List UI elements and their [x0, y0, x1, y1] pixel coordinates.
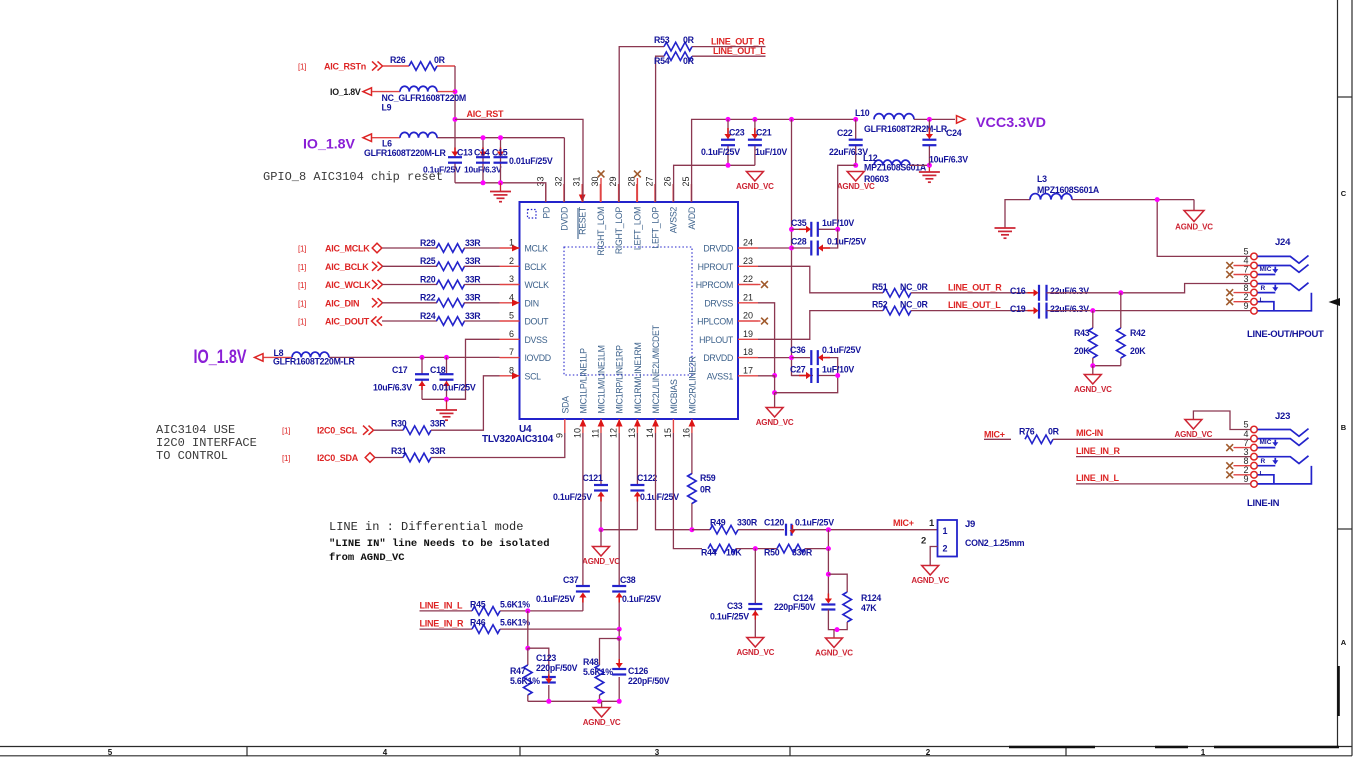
svg-text:5.6K1%: 5.6K1%: [500, 618, 530, 628]
svg-text:J23: J23: [1275, 411, 1290, 422]
junction C21 top: [752, 117, 757, 122]
svg-text:C36: C36: [790, 345, 806, 355]
svg-text:16: 16: [681, 428, 691, 438]
svg-text:AIC_DIN: AIC_DIN: [325, 298, 359, 308]
svg-text:L9: L9: [382, 103, 392, 113]
svg-text:C35: C35: [791, 218, 807, 228]
svg-text:10: 10: [572, 428, 582, 438]
wire RIGHT_LOP pin 29 to R53: [619, 47, 664, 202]
svg-text:R46: R46: [470, 618, 486, 628]
svg-text:NC_GLFR1608T220M: NC_GLFR1608T220M: [382, 93, 467, 103]
wire I2C0_SCL to R30: [374, 429, 403, 431]
wire C120 to J9 pin 1 MIC+: [791, 529, 938, 531]
wire C123 branch: [528, 648, 549, 676]
svg-text:9: 9: [554, 433, 564, 438]
junction C35 left: [789, 227, 794, 232]
svg-text:L10: L10: [855, 108, 870, 118]
svg-text:GLFR1608T220M-LR: GLFR1608T220M-LR: [273, 357, 355, 367]
C28 polarity arrow: [818, 244, 830, 251]
svg-text:PD: PD: [541, 207, 551, 219]
svg-text:0R: 0R: [434, 55, 446, 65]
resistor R46: [472, 625, 500, 634]
junction C17 top: [420, 355, 425, 360]
svg-text:[1]: [1]: [298, 245, 306, 254]
sheet mid-edge arrow marker: [1329, 298, 1341, 306]
svg-text:8: 8: [509, 365, 514, 375]
C36 polarity arrow: [818, 354, 830, 361]
svg-text:R22: R22: [420, 293, 436, 303]
junction LINE_IN_L branch: [525, 608, 530, 613]
wire ground rail to C36 C27 right: [775, 376, 838, 393]
svg-text:DOUT: DOUT: [525, 317, 550, 327]
C120 polarity arrow: [790, 525, 796, 534]
C33 polarity arrow: [752, 611, 759, 620]
svg-text:AVSS2: AVSS2: [669, 207, 679, 234]
svg-text:33R: 33R: [430, 446, 446, 456]
port AIC_DIN: [372, 298, 383, 307]
svg-text:R124: R124: [861, 593, 881, 603]
svg-text:AVDD: AVDD: [687, 207, 697, 230]
capacitor C33: [748, 604, 762, 609]
J24 pin numbers 5 4 7 3 8 2 9: [1243, 247, 1248, 311]
svg-text:C122: C122: [637, 473, 657, 483]
svg-text:24: 24: [743, 238, 753, 248]
svg-text:MIC-IN: MIC-IN: [1076, 428, 1103, 438]
junction R48 C126 split: [617, 636, 622, 641]
svg-text:L6: L6: [382, 139, 392, 149]
svg-text:AIC_RST: AIC_RST: [467, 109, 505, 119]
resistor R25: [437, 262, 465, 271]
svg-text:29: 29: [608, 176, 618, 186]
junction C15 top: [498, 135, 503, 140]
wire DRVSS pin 21 down to AVSS node: [758, 303, 775, 376]
C38 polarity arrow: [616, 593, 623, 603]
svg-text:R42: R42: [1130, 328, 1146, 338]
port IO_1.8V triangle left: [255, 354, 264, 362]
svg-text:1uF/10V: 1uF/10V: [755, 147, 787, 157]
U4 left pin names MCLK BCLK WCLK DIN DOUT DVSS IOVDD SCL: [525, 244, 551, 382]
wire C15 branch: [500, 138, 502, 183]
svg-text:33R: 33R: [465, 311, 481, 321]
svg-text:0.1uF/25V: 0.1uF/25V: [827, 237, 866, 247]
svg-text:MIC: MIC: [1260, 266, 1272, 273]
svg-text:5: 5: [509, 311, 514, 321]
sheet zone numbers 5 4 3 2 1: [108, 748, 1206, 757]
svg-text:[1]: [1]: [282, 454, 290, 463]
wire R30 to SCL pin 8: [431, 376, 500, 430]
inductor L8: [292, 352, 329, 357]
svg-text:LINE_OUT_R: LINE_OUT_R: [948, 283, 1002, 293]
wire IO_1.8V to L9: [372, 91, 400, 93]
capacitor C124: [821, 605, 835, 610]
svg-text:MIC+: MIC+: [893, 518, 914, 528]
junction C22 bottom L12 left: [853, 163, 858, 168]
wire bottom AGND rail: [528, 700, 619, 702]
wire AVSS node down to ground rail: [774, 376, 776, 393]
svg-text:R: R: [1261, 285, 1266, 292]
wire C14 branch: [482, 138, 484, 183]
svg-text:AGND_VC: AGND_VC: [736, 182, 774, 191]
wire MIC+ to R76: [984, 438, 1011, 440]
sheet frame zone ticks bottom: [247, 747, 1066, 756]
J23 no-connect stubs with X pins 7 8 2: [1234, 447, 1251, 449]
svg-text:23: 23: [743, 256, 753, 266]
svg-text:C13: C13: [457, 148, 473, 158]
resistor R22: [437, 299, 465, 308]
capacitor C28: [811, 241, 818, 256]
wire J23 pin 5 to AGND_VC: [1193, 411, 1250, 430]
wire MIC1LP pin 10 down through C37: [582, 433, 584, 585]
U4 bottom pin names SDA MIC1LP MIC1LM MIC1RP MIC1RM MIC2L MICBIAS MIC2R: [560, 324, 697, 413]
wire C13 branch vertical: [454, 152, 456, 158]
svg-text:MIC+: MIC+: [984, 430, 1005, 440]
U4 bottom pin input arrows pins 10-14 16: [580, 419, 587, 427]
U4 top pin stubs 33-25: [546, 184, 692, 202]
wire L12 to C24 bottom: [910, 164, 929, 166]
resistor R53: [664, 42, 692, 51]
svg-text:0.1uF/25V: 0.1uF/25V: [710, 612, 749, 622]
wire C124 R124 bottoms: [828, 610, 847, 630]
svg-text:AGND_VC: AGND_VC: [736, 648, 774, 657]
wire C27 row: [792, 375, 811, 377]
C16 polarity arrow: [1028, 289, 1039, 296]
U4 pin 31 RESET input arrow: [579, 195, 586, 203]
svg-text:MIC1RP/LINE1RP: MIC1RP/LINE1RP: [615, 345, 625, 414]
J9 internal pin labels 1 2: [943, 526, 948, 554]
svg-text:C19: C19: [1010, 304, 1026, 314]
svg-text:1: 1: [1201, 748, 1206, 757]
svg-text:LINE-IN: LINE-IN: [1247, 498, 1280, 509]
wire AVDD pin 25 to 3.3V rail: [692, 119, 856, 202]
svg-text:AGND_VC: AGND_VC: [583, 718, 621, 727]
svg-text:25: 25: [681, 176, 691, 186]
junction R43 bottom: [1090, 363, 1095, 368]
svg-text:AIC3104 USE: AIC3104 USE: [156, 423, 235, 437]
svg-text:R43: R43: [1074, 328, 1090, 338]
wire J9 pin 2 to AGND: [930, 547, 937, 566]
wire left decoupling rail vertical: [791, 119, 793, 229]
svg-text:1uF/10V: 1uF/10V: [822, 218, 854, 228]
svg-text:R: R: [1261, 458, 1266, 465]
J24 jack tiny labels MIC R L: [1260, 266, 1272, 304]
svg-text:C24: C24: [946, 128, 962, 138]
svg-text:HPRCOM: HPRCOM: [696, 280, 733, 290]
capacitor C19: [1039, 303, 1047, 319]
svg-text:R29: R29: [420, 238, 436, 248]
svg-text:1: 1: [509, 238, 514, 248]
junction C24 top: [927, 117, 932, 122]
capacitor C14: [476, 157, 490, 163]
svg-text:21: 21: [743, 292, 753, 302]
C14 polarity arrow: [479, 148, 486, 157]
svg-text:B: B: [1341, 423, 1347, 432]
svg-text:TO CONTROL: TO CONTROL: [156, 449, 228, 463]
svg-text:C120: C120: [764, 518, 784, 528]
svg-text:C126: C126: [628, 666, 648, 676]
svg-text:C23: C23: [729, 128, 745, 138]
svg-text:AGND_VC: AGND_VC: [1175, 430, 1213, 439]
svg-text:C28: C28: [791, 237, 807, 247]
wire L3 to J24 pin 5: [1072, 199, 1194, 201]
junction C23 bottom: [726, 163, 731, 168]
svg-text:3: 3: [509, 274, 514, 284]
resistor R42: [1120, 293, 1122, 328]
svg-text:AIC_MCLK: AIC_MCLK: [325, 244, 370, 254]
U4 top pin numbers 33-25: [535, 176, 691, 186]
resistor R26: [409, 62, 437, 71]
wire L3 left to ground: [1005, 200, 1030, 228]
resistor R31: [403, 453, 431, 462]
port I2C0_SCL chevron: [363, 426, 374, 435]
svg-text:HPLCOM: HPLCOM: [697, 317, 733, 327]
capacitor C17: [415, 374, 429, 380]
wire AIC_DIN to resistor: [382, 302, 437, 304]
svg-text:AGND_VC: AGND_VC: [1074, 385, 1112, 394]
U4 left pin stubs 1-8: [500, 248, 520, 376]
resistor R124: [843, 592, 852, 622]
inductor L12: [874, 160, 910, 165]
svg-text:MICBIAS: MICBIAS: [669, 379, 679, 414]
svg-text:MIC: MIC: [1260, 439, 1272, 446]
svg-text:C121: C121: [583, 473, 603, 483]
svg-text:L: L: [1260, 297, 1264, 304]
wire C22 branch: [855, 119, 857, 139]
wire MIC2L pin 14 down to R49 node: [656, 433, 692, 530]
C124 polarity arrow: [825, 594, 832, 604]
svg-text:10uF/6.3V: 10uF/6.3V: [929, 155, 968, 165]
svg-text:R20: R20: [420, 274, 436, 284]
wire R49 row: [692, 529, 710, 531]
svg-text:SCL: SCL: [525, 371, 542, 381]
port IO_1.8V small triangle: [363, 88, 372, 96]
junction C14 top: [481, 135, 486, 140]
svg-text:AIC_DOUT: AIC_DOUT: [325, 317, 370, 327]
no-connect X on pin 22 HPRCOM: [758, 284, 761, 286]
svg-text:20: 20: [743, 311, 753, 321]
svg-text:MIC2R/LINE2R: MIC2R/LINE2R: [687, 356, 697, 413]
wire MIC1RM pin 13 down through C122: [636, 433, 638, 484]
junction at L9 tap: [453, 89, 458, 94]
wire C17 branch: [421, 357, 423, 374]
svg-text:A: A: [1341, 638, 1347, 647]
svg-text:26: 26: [663, 176, 673, 186]
svg-text:32: 32: [554, 176, 564, 186]
svg-text:AGND_VC: AGND_VC: [911, 576, 949, 585]
svg-text:20K: 20K: [1130, 346, 1146, 356]
svg-text:RIGHT_LOM: RIGHT_LOM: [596, 207, 606, 256]
resistor R48: [595, 665, 604, 695]
J24 jack contact blue symbol: [1258, 256, 1312, 311]
svg-text:IOVDD: IOVDD: [525, 353, 551, 363]
C21 polarity arrow: [751, 128, 758, 139]
J23 pin numbers 5 4 7 3 8 2 9: [1243, 420, 1248, 484]
svg-text:C21: C21: [756, 128, 772, 138]
svg-text:C15: C15: [492, 148, 508, 158]
svg-text:LINE_OUT_L: LINE_OUT_L: [713, 46, 766, 56]
svg-text:19: 19: [743, 329, 753, 339]
wire R25 to U4 pin 2: [464, 265, 500, 267]
capacitor C37: [576, 586, 590, 592]
capacitor C15: [494, 157, 508, 163]
analog ground AGND_VC below C22: [837, 172, 875, 192]
svg-text:IO_1.8V: IO_1.8V: [194, 347, 247, 368]
svg-text:LINE_IN_L: LINE_IN_L: [1076, 473, 1120, 483]
svg-text:MCLK: MCLK: [525, 244, 549, 254]
C24 polarity arrow: [926, 128, 933, 139]
U4 top pin names PD DVDD RESET RIGHT_LOM RIGHT_LOP LEFT_LOM LEFT_LOP AVSS2 AVDD: [541, 206, 697, 256]
junction C15 bottom: [498, 180, 503, 185]
svg-text:R24: R24: [420, 311, 436, 321]
wire C121 C122 common to AGND: [601, 529, 637, 531]
svg-text:11: 11: [591, 429, 601, 438]
svg-text:220pF/50V: 220pF/50V: [628, 676, 670, 686]
port AIC_BCLK: [372, 262, 383, 271]
wire C33 branch: [754, 549, 756, 604]
svg-text:2: 2: [509, 256, 514, 266]
inductor L3: [1030, 194, 1072, 200]
svg-text:3: 3: [655, 748, 660, 757]
svg-text:DVDD: DVDD: [560, 207, 570, 231]
resistor R44: [708, 544, 736, 553]
svg-text:17: 17: [743, 365, 753, 375]
resistor R54: [664, 52, 692, 61]
C37 polarity arrow: [579, 593, 586, 603]
wire C28 row: [792, 247, 811, 249]
svg-text:9: 9: [1243, 301, 1248, 311]
wire IO_1.8V through L8 to IOVDD pin 7: [264, 356, 293, 358]
svg-text:DIN: DIN: [525, 298, 539, 308]
analog ground AGND_VC above J23: [1175, 420, 1213, 440]
analog ground AGND_VC at L3 output: [1175, 200, 1213, 232]
port AIC_RSTn chevron: [372, 61, 383, 70]
svg-text:33R: 33R: [430, 419, 446, 429]
junction C14 bottom: [481, 180, 486, 185]
svg-text:DRVDD: DRVDD: [703, 244, 733, 254]
svg-text:BCLK: BCLK: [525, 262, 547, 272]
analog ground AGND_VC below R43: [1074, 366, 1112, 395]
svg-text:10uF/6.3V: 10uF/6.3V: [464, 165, 502, 175]
svg-text:22uF/6.3V: 22uF/6.3V: [1050, 304, 1089, 314]
junction L10 left: [853, 117, 858, 122]
resistor R24: [437, 317, 465, 326]
svg-text:DRVDD: DRVDD: [703, 353, 733, 363]
no-connect X on pin 28 LEFT_LOM: [636, 178, 638, 202]
port VCC3.3VD triangle: [957, 116, 966, 124]
svg-text:R59: R59: [700, 473, 716, 483]
svg-text:L12: L12: [863, 153, 878, 163]
U4 right pin stubs 24-17: [738, 248, 758, 376]
wire R20 to U4 pin 3: [464, 284, 500, 286]
svg-text:220pF/50V: 220pF/50V: [536, 663, 578, 673]
svg-text:R54: R54: [654, 56, 670, 66]
svg-text:LINE_OUT_L: LINE_OUT_L: [948, 300, 1001, 310]
wire R22 to U4 pin 4: [464, 302, 500, 304]
port IO_1.8V triangle: [363, 134, 372, 142]
svg-text:HPROUT: HPROUT: [698, 262, 734, 272]
svg-text:27: 27: [645, 176, 655, 186]
capacitor C21: [748, 140, 762, 146]
capacitor C24: [922, 140, 936, 146]
svg-text:0.1uF/25V: 0.1uF/25V: [553, 492, 592, 502]
resistor R30: [403, 426, 431, 435]
junction LINE_IN_R branch: [617, 627, 622, 632]
svg-text:C38: C38: [620, 575, 636, 585]
svg-text:R50: R50: [764, 548, 780, 558]
svg-text:MPZ1608S601A: MPZ1608S601A: [864, 163, 927, 173]
svg-text:R44: R44: [701, 548, 717, 558]
capacitor C38: [612, 586, 626, 592]
capacitor C123: [542, 677, 556, 683]
svg-text:AVSS1: AVSS1: [707, 371, 734, 381]
svg-text:5: 5: [108, 748, 113, 757]
analog ground AGND_VC below C121: [582, 530, 620, 567]
resistor R76: [1025, 435, 1053, 444]
svg-text:5.6K1%: 5.6K1%: [583, 667, 613, 677]
C35 polarity arrow: [799, 226, 811, 233]
svg-text:L3: L3: [1037, 174, 1047, 184]
svg-text:LINE_IN_R: LINE_IN_R: [1076, 446, 1121, 456]
svg-text:20K: 20K: [1074, 346, 1090, 356]
port I2C0_SDA diamond: [365, 453, 375, 463]
junction C18 top: [444, 355, 449, 360]
U4 pin 31 RESET overline: [577, 208, 579, 239]
resistor R51: [883, 289, 911, 298]
svg-text:[1]: [1]: [282, 427, 290, 436]
svg-text:MIC1LM/LINE1LM: MIC1LM/LINE1LM: [597, 345, 607, 413]
resistor R45: [472, 607, 500, 616]
wire C35 row: [792, 228, 811, 230]
ground symbol below C15: [490, 183, 511, 202]
wire LINE_IN_L branch down to R47 C123: [527, 611, 529, 648]
wire R31 to SDA pin 9: [431, 433, 565, 458]
wire R44 to R50: [736, 548, 777, 550]
resistor R50: [777, 544, 805, 553]
wire C16 to J24 pin 3: [1047, 284, 1251, 293]
C27 polarity arrow: [799, 372, 811, 379]
junction L3 output: [1155, 197, 1160, 202]
wire MIC1LM pin 11 down through C121: [600, 433, 602, 484]
junction C18 bottom: [444, 397, 449, 402]
U4 left pin input arrows pins 1 4 8: [512, 245, 520, 252]
svg-text:[1]: [1]: [298, 281, 306, 290]
svg-text:MIC1LP/LINE1LP: MIC1LP/LINE1LP: [578, 348, 588, 414]
capacitor C13: [448, 157, 462, 163]
svg-text:J9: J9: [965, 519, 975, 530]
junction MIC+ node: [826, 527, 831, 532]
U4 left pin numbers 1-8: [509, 238, 514, 376]
svg-text:C16: C16: [1010, 286, 1026, 296]
wire MIC2R pin 16 down through R59: [691, 433, 693, 474]
wire R124 branch top: [828, 574, 847, 592]
svg-text:R30: R30: [391, 419, 407, 429]
svg-text:C27: C27: [790, 365, 806, 375]
junction ground rail left: [772, 390, 777, 395]
wire MIC1RP pin 12 down through C38: [618, 433, 620, 585]
wire AIC_RST vertical node: [454, 66, 456, 152]
wire MIC+ node down to C124 R124: [827, 549, 829, 598]
analog ground AGND_VC below line-in network: [583, 702, 621, 728]
port AIC_MCLK: [372, 243, 382, 253]
connector J24 pin circles: [1251, 253, 1258, 314]
wire R51 to C16: [911, 292, 1032, 294]
inductor L10: [874, 114, 914, 120]
wire AIC_WCLK to resistor: [382, 284, 437, 286]
wire C21 branch: [754, 119, 756, 139]
junction R47 C123 split: [525, 646, 530, 651]
svg-text:5.6K1%: 5.6K1%: [510, 676, 540, 686]
U4 pin-1 dotted index square: [528, 210, 537, 219]
junction C121 bottom: [599, 527, 604, 532]
